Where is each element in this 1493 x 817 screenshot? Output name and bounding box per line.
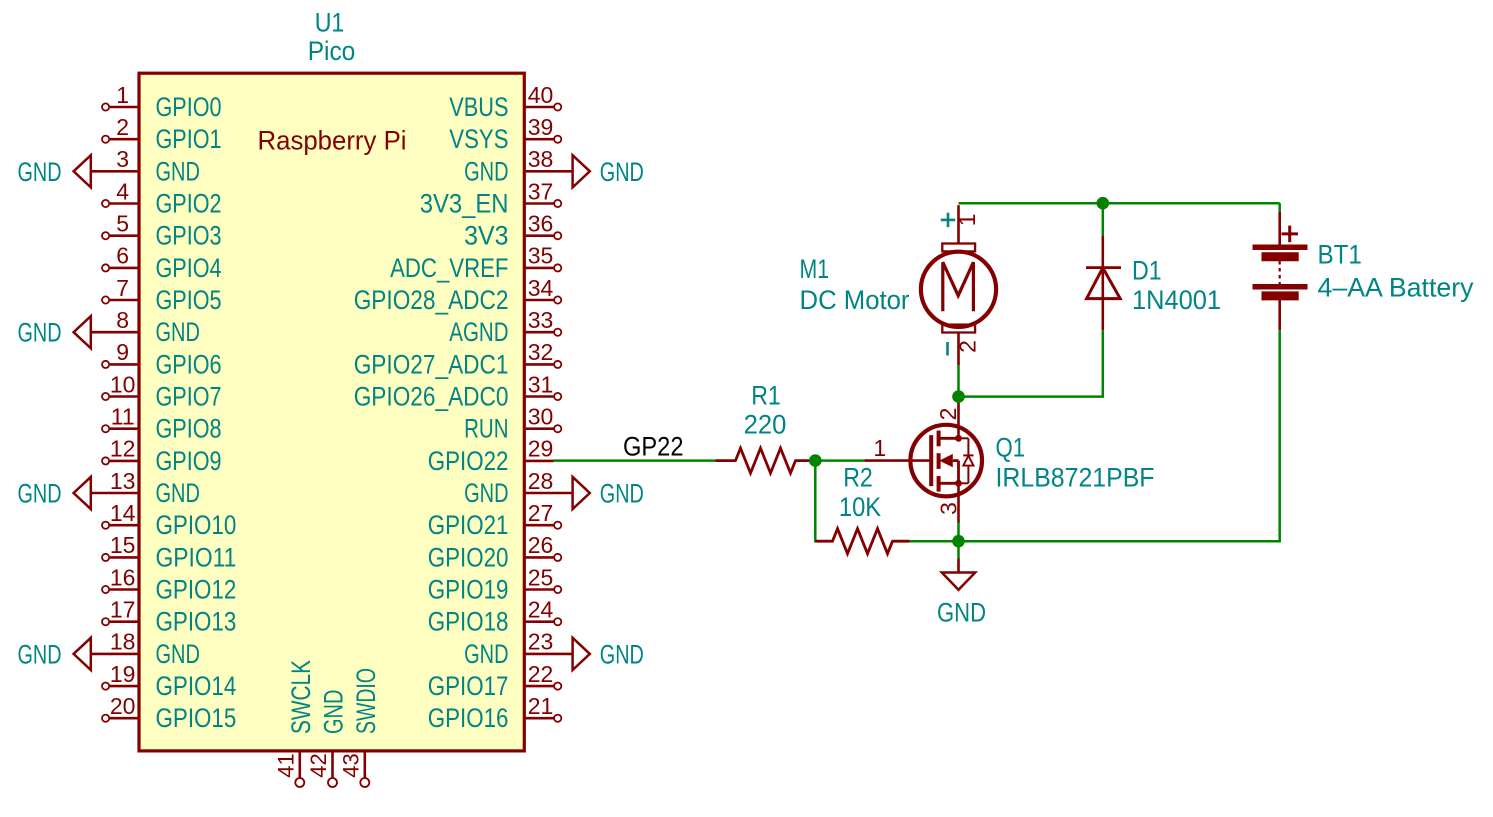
svg-text:GPIO26_ADC0: GPIO26_ADC0: [354, 382, 509, 412]
svg-text:GPIO21: GPIO21: [428, 510, 509, 540]
svg-text:24: 24: [528, 597, 554, 623]
BT1 value label 4-AA Battery: [1318, 273, 1474, 303]
svg-text:GPIO1: GPIO1: [156, 124, 222, 154]
svg-text:GPIO22: GPIO22: [428, 446, 509, 476]
svg-text:GND: GND: [18, 318, 62, 348]
svg-text:41: 41: [274, 753, 299, 777]
svg-text:4–AA Battery: 4–AA Battery: [1318, 273, 1474, 303]
junction node motor-/drain: [952, 390, 965, 403]
pin 36 3V3 (U1 right): [464, 211, 561, 251]
pin 31 GPIO26_ADC0 (U1 right): [354, 371, 562, 411]
svg-text:IRLB8721PBF: IRLB8721PBF: [996, 463, 1155, 493]
svg-text:SWDIO: SWDIO: [351, 668, 381, 734]
svg-text:GPIO19: GPIO19: [428, 575, 509, 605]
ground flag GND at pin 3: [18, 155, 111, 187]
wire GP22 net from U1 pin 29 to R1: [554, 459, 716, 462]
svg-text:4: 4: [116, 178, 129, 204]
svg-text:GND: GND: [156, 639, 200, 669]
Q1 pin 2 number (drain): [935, 408, 961, 421]
svg-text:18: 18: [110, 629, 136, 655]
svg-text:40: 40: [528, 82, 554, 108]
wire battery - down and to ground junction: [959, 330, 1280, 541]
svg-text:37: 37: [528, 178, 554, 204]
pin 16 GPIO12 (U1 left): [102, 564, 236, 604]
svg-text:GND: GND: [464, 156, 508, 186]
pin 4 GPIO2 (U1 left): [102, 178, 222, 218]
svg-text:SWCLK: SWCLK: [286, 660, 316, 734]
net label GP22: [623, 431, 684, 461]
svg-text:23: 23: [528, 629, 554, 655]
svg-text:33: 33: [528, 307, 554, 333]
ground flag GND at pin 8: [18, 316, 111, 348]
resistor R1: [716, 448, 816, 473]
svg-text:12: 12: [110, 436, 136, 462]
svg-text:GPIO15: GPIO15: [156, 703, 237, 733]
svg-text:GPIO7: GPIO7: [156, 382, 222, 412]
pin 39 VSYS (U1 right): [449, 114, 561, 154]
ground flag GND at pin 28: [553, 477, 644, 509]
pin 29 GPIO22 (U1 right): [428, 436, 554, 476]
svg-text:22: 22: [528, 661, 554, 687]
svg-text:3V3_EN: 3V3_EN: [420, 189, 509, 219]
svg-text:38: 38: [528, 146, 554, 172]
pin 26 GPIO20 (U1 right): [428, 532, 562, 572]
svg-text:M1: M1: [800, 254, 830, 284]
wire motor+ to battery+ (top rail): [959, 202, 1280, 205]
svg-text:GND: GND: [464, 639, 508, 669]
pin 42 GND (U1 bottom): [306, 690, 348, 787]
R2 reference label: [843, 462, 873, 492]
pin 1 GPIO0 (U1 left): [102, 82, 222, 122]
svg-text:GPIO9: GPIO9: [156, 446, 222, 476]
svg-text:GND: GND: [464, 478, 508, 508]
pin 37 3V3_EN (U1 right): [420, 178, 562, 218]
svg-text:GPIO11: GPIO11: [156, 542, 237, 572]
svg-text:D1: D1: [1132, 256, 1162, 286]
pin 18 GND (U1 left): [110, 629, 200, 669]
svg-text:13: 13: [110, 468, 136, 494]
svg-text:VBUS: VBUS: [449, 92, 508, 122]
pin 21 GPIO16 (U1 right): [428, 693, 562, 733]
svg-text:26: 26: [528, 532, 554, 558]
pin 7 GPIO5 (U1 left): [102, 275, 222, 315]
pin 32 GPIO27_ADC1 (U1 right): [354, 339, 562, 379]
pin 23 GND (U1 right): [464, 629, 553, 669]
pin 28 GND (U1 right): [464, 468, 553, 508]
svg-text:2: 2: [955, 340, 981, 353]
svg-text:GPIO20: GPIO20: [428, 542, 509, 572]
svg-text:16: 16: [110, 564, 136, 590]
pin 30 RUN (U1 right): [464, 404, 561, 444]
svg-text:3: 3: [935, 502, 961, 515]
pin 38 GND (U1 right): [464, 146, 553, 186]
pin 5 GPIO3 (U1 left): [102, 211, 222, 251]
transistor Q1 IRLB8721PBF N-MOSFET: [864, 399, 982, 523]
motor M1: [921, 205, 996, 365]
pin 34 GPIO28_ADC2 (U1 right): [354, 275, 562, 315]
svg-text:GND: GND: [18, 639, 62, 669]
svg-text:GPIO16: GPIO16: [428, 703, 509, 733]
svg-text:27: 27: [528, 500, 554, 526]
wire top rail to D1 cathode: [1102, 203, 1105, 236]
D1 value label 1N4001: [1132, 285, 1221, 315]
Q1 value label IRLB8721PBF: [996, 463, 1155, 493]
U1 value label Pico: [308, 36, 356, 66]
wire Q1 source to junction: [957, 522, 960, 541]
wire top rail corner to battery +: [1278, 203, 1281, 212]
ground flag GND at pin 18: [18, 638, 111, 670]
wire D1 anode to mid rail: [959, 330, 1103, 396]
svg-text:2: 2: [935, 408, 961, 421]
svg-text:21: 21: [528, 693, 554, 719]
svg-text:35: 35: [528, 243, 554, 269]
junction node source/ground: [952, 535, 965, 548]
wire Q1 drain to motor junction: [957, 365, 960, 397]
svg-text:GPIO5: GPIO5: [156, 285, 222, 315]
svg-text:Raspberry Pi: Raspberry Pi: [258, 126, 407, 156]
wire junction to ground symbol: [957, 541, 960, 558]
U1 reference label: [315, 8, 345, 38]
svg-text:GP22: GP22: [623, 431, 684, 461]
svg-text:1: 1: [116, 82, 129, 108]
svg-text:15: 15: [110, 532, 136, 558]
ground flag GND at pin 38: [553, 155, 644, 187]
ground symbol label GND: [937, 598, 986, 628]
svg-text:19: 19: [110, 661, 136, 687]
svg-text:29: 29: [528, 436, 554, 462]
pin 33 AGND (U1 right): [449, 307, 561, 347]
svg-text:GPIO14: GPIO14: [156, 671, 237, 701]
D1 reference label: [1132, 256, 1162, 286]
svg-text:2: 2: [116, 114, 129, 140]
R1 reference label: [751, 380, 781, 410]
Q1 pin 1 number (gate): [873, 435, 886, 461]
svg-text:Pico: Pico: [308, 36, 356, 66]
IC U1 Raspberry Pi Pico body: [139, 73, 524, 751]
svg-text:1: 1: [873, 435, 886, 461]
svg-text:GPIO28_ADC2: GPIO28_ADC2: [354, 285, 509, 315]
M1 reference label: [800, 254, 830, 284]
svg-text:36: 36: [528, 211, 554, 237]
svg-text:5: 5: [116, 211, 129, 237]
svg-text:DC Motor: DC Motor: [800, 285, 910, 315]
pin 12 GPIO9 (U1 left): [102, 436, 222, 476]
svg-text:43: 43: [339, 753, 364, 777]
ground flag GND at pin 13: [18, 477, 111, 509]
wire R2 to source junction: [910, 540, 959, 543]
svg-text:GPIO10: GPIO10: [156, 510, 237, 540]
svg-text:20: 20: [110, 693, 136, 719]
svg-text:ADC_VREF: ADC_VREF: [390, 253, 508, 283]
svg-text:3: 3: [116, 146, 129, 172]
pin 9 GPIO6 (U1 left): [102, 339, 222, 379]
svg-text:GND: GND: [18, 479, 62, 509]
svg-text:42: 42: [306, 753, 331, 777]
svg-text:10K: 10K: [839, 492, 881, 522]
svg-text:GND: GND: [600, 479, 644, 509]
svg-text:1: 1: [954, 213, 980, 226]
pin 19 GPIO14 (U1 left): [102, 661, 236, 701]
svg-text:14: 14: [110, 500, 136, 526]
svg-text:R2: R2: [843, 462, 873, 492]
Q1 pin 3 number (source): [935, 502, 961, 515]
svg-text:GPIO12: GPIO12: [156, 575, 237, 605]
pin 25 GPIO19 (U1 right): [428, 564, 562, 604]
svg-text:BT1: BT1: [1318, 239, 1362, 269]
svg-text:GND: GND: [18, 157, 62, 187]
svg-text:GND: GND: [600, 157, 644, 187]
pin 40 VBUS (U1 right): [449, 82, 561, 122]
M1 pin 1 number: [954, 213, 980, 226]
svg-text:GPIO0: GPIO0: [156, 92, 222, 122]
svg-text:GND: GND: [156, 156, 200, 186]
pin 15 GPIO11 (U1 left): [102, 532, 236, 572]
svg-text:6: 6: [116, 243, 129, 269]
svg-text:GND: GND: [937, 598, 986, 628]
diode D1: [1086, 236, 1121, 330]
pin 22 GPIO17 (U1 right): [428, 661, 562, 701]
M1 pin 2 number: [955, 340, 981, 353]
svg-text:GPIO4: GPIO4: [156, 253, 222, 283]
svg-text:9: 9: [116, 339, 129, 365]
svg-text:GPIO6: GPIO6: [156, 349, 222, 379]
svg-text:32: 32: [528, 339, 554, 365]
svg-text:GND: GND: [600, 639, 644, 669]
U1 graphic text Raspberry Pi: [258, 126, 407, 156]
svg-text:17: 17: [110, 597, 136, 623]
svg-text:1N4001: 1N4001: [1132, 285, 1221, 315]
svg-text:7: 7: [116, 275, 129, 301]
svg-text:220: 220: [744, 410, 787, 440]
svg-text:VSYS: VSYS: [449, 124, 508, 154]
M1 pin 1 plus mark: [941, 213, 955, 227]
svg-text:28: 28: [528, 468, 554, 494]
pin 43 SWDIO (U1 bottom): [339, 668, 381, 787]
pin 3 GND (U1 left): [110, 146, 200, 186]
pin 41 SWCLK (U1 bottom): [274, 660, 316, 787]
R2 value label 10K: [839, 492, 881, 522]
svg-text:25: 25: [528, 564, 554, 590]
ground symbol GND: [942, 559, 975, 590]
svg-text:30: 30: [528, 404, 554, 430]
svg-text:10: 10: [110, 371, 136, 397]
svg-text:R1: R1: [751, 380, 781, 410]
pin 6 GPIO4 (U1 left): [102, 243, 222, 283]
svg-text:GPIO13: GPIO13: [156, 607, 237, 637]
pin 27 GPIO21 (U1 right): [428, 500, 562, 540]
pin 2 GPIO1 (U1 left): [102, 114, 222, 154]
wire junction down to R2: [815, 461, 817, 542]
pin 17 GPIO13 (U1 left): [102, 597, 236, 637]
svg-text:11: 11: [111, 404, 135, 430]
junction node gate: [809, 454, 822, 467]
svg-text:Q1: Q1: [996, 432, 1026, 462]
pin 35 ADC_VREF (U1 right): [390, 243, 561, 283]
svg-text:GPIO3: GPIO3: [156, 221, 222, 251]
junction node top rail / D1 cathode: [1097, 197, 1110, 210]
svg-text:3V3: 3V3: [464, 221, 508, 251]
R1 value label 220: [744, 410, 787, 440]
ground flag GND at pin 23: [553, 638, 644, 670]
pin 8 GND (U1 left): [110, 307, 200, 347]
svg-text:GND: GND: [156, 478, 200, 508]
pin 13 GND (U1 left): [110, 468, 200, 508]
Q1 reference label: [996, 432, 1026, 462]
resistor R2: [815, 529, 909, 554]
pin 20 GPIO15 (U1 left): [102, 693, 236, 733]
BT1 reference label: [1318, 239, 1362, 269]
svg-text:GND: GND: [319, 690, 349, 734]
svg-text:8: 8: [116, 307, 129, 333]
pin 14 GPIO10 (U1 left): [102, 500, 236, 540]
M1 value label DC Motor: [800, 285, 910, 315]
battery BT1: [1253, 212, 1308, 330]
svg-text:GPIO2: GPIO2: [156, 189, 222, 219]
svg-text:GPIO17: GPIO17: [428, 671, 509, 701]
svg-text:U1: U1: [315, 8, 345, 38]
pin 24 GPIO18 (U1 right): [428, 597, 562, 637]
svg-text:34: 34: [528, 275, 554, 301]
svg-text:AGND: AGND: [449, 317, 508, 347]
svg-text:GPIO18: GPIO18: [428, 607, 509, 637]
svg-text:GPIO8: GPIO8: [156, 414, 222, 444]
svg-text:GND: GND: [156, 317, 200, 347]
svg-text:39: 39: [528, 114, 554, 140]
svg-text:31: 31: [528, 371, 554, 397]
svg-text:RUN: RUN: [464, 414, 508, 444]
pin 11 GPIO8 (U1 left): [102, 404, 222, 444]
wire junction to Q1 gate: [815, 459, 864, 462]
pin 10 GPIO7 (U1 left): [102, 371, 222, 411]
M1 pin 2 minus mark: [946, 342, 949, 356]
svg-text:GPIO27_ADC1: GPIO27_ADC1: [354, 349, 509, 379]
